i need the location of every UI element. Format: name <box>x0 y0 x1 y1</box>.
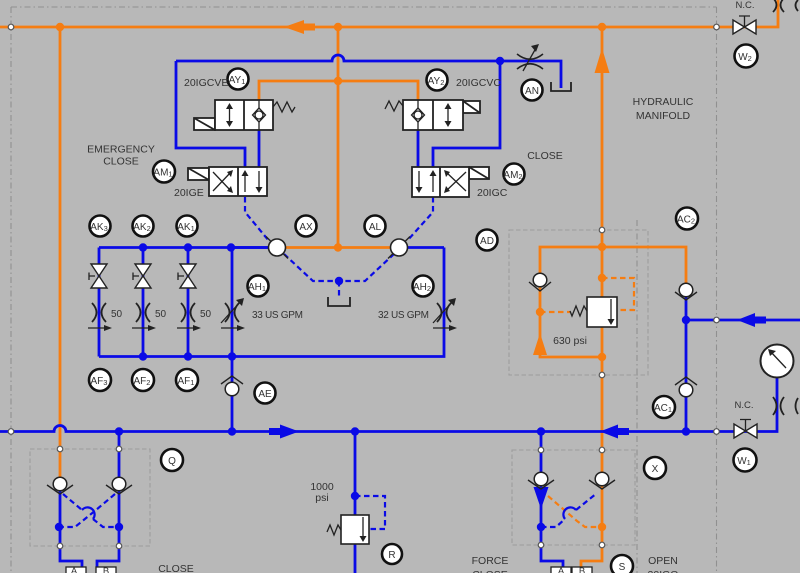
svg-text:20IGCVC: 20IGCVC <box>456 77 501 89</box>
svg-text:AF2: AF2 <box>134 376 151 387</box>
svg-text:MANIFOLD: MANIFOLD <box>636 110 691 122</box>
svg-text:N.C.: N.C. <box>735 400 754 411</box>
svg-text:20IGO: 20IGO <box>648 569 679 573</box>
svg-text:OPEN: OPEN <box>648 555 678 567</box>
svg-text:20IGE: 20IGE <box>174 187 204 199</box>
svg-text:33 US GPM: 33 US GPM <box>252 310 303 321</box>
svg-text:630 psi: 630 psi <box>553 335 587 347</box>
svg-text:CLOSE: CLOSE <box>103 156 139 168</box>
svg-text:psi: psi <box>315 492 328 504</box>
svg-text:50: 50 <box>155 309 167 320</box>
svg-text:AH2: AH2 <box>413 282 431 293</box>
svg-text:AH1: AH1 <box>248 282 266 293</box>
svg-text:R: R <box>388 550 395 561</box>
svg-text:FORCE: FORCE <box>472 555 509 567</box>
svg-text:AX: AX <box>299 222 313 233</box>
svg-text:AC1: AC1 <box>654 403 672 414</box>
svg-text:AD: AD <box>480 236 494 247</box>
svg-text:W1: W1 <box>737 456 751 467</box>
svg-text:A: A <box>71 566 78 573</box>
svg-text:AK3: AK3 <box>90 222 108 233</box>
svg-text:HYDRAULIC: HYDRAULIC <box>633 96 694 108</box>
svg-text:X: X <box>652 464 659 475</box>
svg-text:CLOSE: CLOSE <box>472 569 508 573</box>
svg-text:B: B <box>103 566 109 573</box>
svg-text:AE: AE <box>258 389 272 400</box>
svg-text:AY2: AY2 <box>428 76 445 87</box>
svg-text:W2: W2 <box>738 52 752 63</box>
svg-text:AM2: AM2 <box>503 170 522 181</box>
svg-text:AY1: AY1 <box>229 75 246 86</box>
svg-text:32 US GPM: 32 US GPM <box>378 310 429 321</box>
svg-text:AM1: AM1 <box>153 168 172 179</box>
svg-text:CLOSE: CLOSE <box>527 150 563 162</box>
svg-text:50: 50 <box>111 309 123 320</box>
svg-text:AN: AN <box>525 86 539 97</box>
svg-text:AK1: AK1 <box>177 222 195 233</box>
svg-text:AF3: AF3 <box>91 376 108 387</box>
svg-text:20IGCVE: 20IGCVE <box>184 77 228 89</box>
svg-text:A: A <box>558 566 565 573</box>
svg-text:N.C.: N.C. <box>736 0 755 11</box>
svg-text:CLOSE: CLOSE <box>158 563 194 573</box>
svg-text:EMERGENCY: EMERGENCY <box>87 144 155 156</box>
svg-text:S: S <box>619 562 626 573</box>
svg-text:B: B <box>579 566 585 573</box>
svg-text:AL: AL <box>369 222 382 233</box>
svg-text:Q: Q <box>168 456 176 467</box>
svg-text:50: 50 <box>200 309 212 320</box>
svg-text:20IGC: 20IGC <box>477 187 508 199</box>
svg-text:AK2: AK2 <box>133 222 151 233</box>
svg-text:AC2: AC2 <box>677 215 695 226</box>
svg-text:AF1: AF1 <box>178 376 195 387</box>
